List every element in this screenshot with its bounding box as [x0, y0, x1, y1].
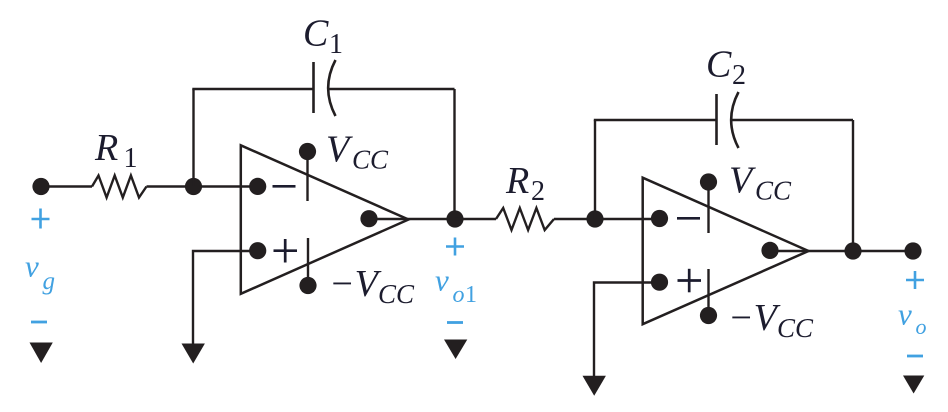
ground arrow below U1 + input — [182, 344, 205, 364]
svg-text:2: 2 — [732, 60, 746, 91]
op-amp U2 VCC pin — [700, 173, 717, 233]
label vg source voltage — [25, 249, 55, 296]
label -VCC of U2 — [728, 297, 814, 343]
svg-text:g: g — [43, 268, 56, 295]
svg-text:1: 1 — [465, 282, 477, 308]
node: output terminal vo — [904, 242, 921, 259]
label C1 — [303, 13, 343, 61]
node: junction of R1 and C1 feedback — [185, 178, 202, 195]
svg-text:2: 2 — [531, 176, 545, 207]
svg-text:C: C — [706, 44, 732, 86]
node: input terminal vg — [32, 178, 49, 195]
label - polarity of vo1 — [447, 321, 463, 324]
wire: feedback 2 right vertical down to output node — [852, 120, 854, 251]
op-amp U1 VCC pin — [299, 143, 316, 201]
op-amp U2 negative VCC pin — [700, 269, 717, 324]
wire: R2 to U2 inverting input — [554, 218, 660, 220]
wire: U2 noninverting input stub — [643, 281, 660, 283]
svg-text:−V: −V — [728, 297, 781, 339]
op-amp U1 inverting input dot — [249, 178, 266, 195]
op-amp U1 triangle — [241, 145, 409, 293]
label - polarity of vg — [31, 321, 47, 324]
wire: feedback 2 left vertical (junction up to C2) — [594, 120, 596, 219]
op-amp U2 plus sign — [678, 269, 702, 293]
wire: U1 output to node vo1 — [369, 218, 455, 220]
svg-text:CC: CC — [755, 176, 792, 206]
op-amp U2 triangle — [643, 178, 809, 325]
svg-text:C: C — [303, 13, 329, 55]
svg-text:v: v — [25, 249, 39, 284]
svg-text:v: v — [898, 297, 912, 332]
wire: C2 to feedback 2 right vertical — [730, 119, 853, 121]
ground marker below vg — [30, 343, 53, 364]
ground marker below vo1 — [444, 340, 467, 360]
svg-text:1: 1 — [329, 29, 343, 60]
svg-text:o: o — [916, 314, 927, 339]
wire: feedback 2 top horizontal left of C2 — [594, 119, 716, 121]
wire: node vo1 to R2 — [455, 218, 496, 220]
svg-text:R: R — [94, 127, 118, 169]
svg-text:v: v — [435, 263, 449, 298]
wire: feedback right vertical down to node vo1 — [453, 89, 455, 219]
node: junction of R2 and C2 feedback — [586, 210, 603, 227]
svg-text:1: 1 — [124, 143, 138, 174]
label C2 — [706, 44, 746, 92]
wire: C1 to feedback right vertical — [327, 88, 455, 90]
op-amp U2 output dot — [761, 242, 778, 259]
node: feedback 2 junction on output wire — [844, 242, 861, 259]
svg-text:o: o — [453, 282, 465, 308]
wire: feedback left vertical (junction up to C1) — [192, 89, 194, 187]
label R1 — [94, 127, 138, 174]
resistor R2 zigzag — [496, 208, 554, 230]
ground arrow below U2 + input — [583, 376, 606, 396]
label VCC of U1 — [326, 129, 389, 175]
capacitor C2 — [717, 92, 739, 148]
wire: input terminal to R1 — [41, 185, 92, 187]
svg-text:−V: −V — [329, 263, 382, 305]
svg-text:R: R — [505, 160, 529, 202]
svg-text:V: V — [729, 160, 756, 202]
label R2 — [505, 160, 545, 207]
wire: U2 output to terminal vo — [770, 250, 913, 252]
wire: feedback top horizontal left of C1 — [192, 88, 313, 90]
op-amp U1 negative VCC pin — [299, 238, 316, 294]
wire: R1 to U1 inverting input — [147, 185, 259, 187]
op-amp U1 minus sign — [273, 185, 296, 188]
label vo1 voltage — [435, 263, 477, 309]
svg-text:V: V — [326, 129, 353, 171]
svg-text:CC: CC — [378, 279, 415, 309]
op-amp U2 noninverting input dot — [651, 274, 668, 291]
wire: U2 + input to ground — [594, 283, 643, 378]
label - polarity of vo — [907, 355, 923, 358]
op-amp U1 plus sign — [274, 239, 298, 263]
svg-text:CC: CC — [777, 313, 814, 343]
wire: U1 noninverting input stub — [241, 250, 258, 252]
label -VCC of U1 — [329, 263, 415, 309]
label + polarity of vg — [32, 209, 50, 229]
node: output vo1 — [446, 210, 463, 227]
op-amp U1 output dot — [360, 210, 377, 227]
svg-text:CC: CC — [352, 145, 389, 175]
ground marker below vo — [903, 376, 924, 394]
label + polarity of vo — [906, 271, 924, 289]
resistor R1 zigzag — [92, 176, 147, 198]
op-amp U2 minus sign — [677, 217, 700, 220]
capacitor C1 — [314, 60, 336, 116]
op-amp U2 inverting input dot — [651, 210, 668, 227]
wire: U1 + input to ground — [193, 251, 241, 345]
label vo voltage — [898, 297, 927, 340]
label + polarity of vo1 — [446, 238, 464, 256]
label VCC of U2 — [729, 160, 792, 206]
op-amp U1 noninverting input dot — [249, 242, 266, 259]
